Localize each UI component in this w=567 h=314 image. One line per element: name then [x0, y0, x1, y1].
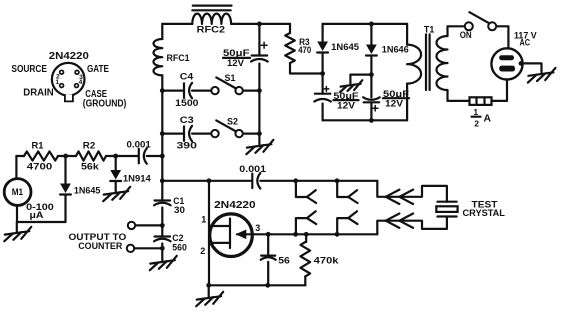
svg-text:C4: C4	[180, 72, 194, 83]
svg-text:ON: ON	[460, 30, 472, 40]
svg-text:50μF: 50μF	[383, 89, 409, 99]
svg-text:(GROUND): (GROUND)	[83, 99, 127, 110]
svg-text:470k: 470k	[314, 255, 340, 265]
svg-text:4700: 4700	[27, 161, 52, 171]
svg-text:1: 1	[55, 79, 59, 86]
svg-text:30: 30	[174, 205, 185, 215]
svg-text:AC: AC	[520, 37, 531, 47]
svg-text:RFC1: RFC1	[167, 53, 190, 63]
svg-text:2: 2	[474, 119, 479, 129]
svg-text:T1: T1	[424, 24, 434, 34]
svg-text:390: 390	[177, 141, 197, 151]
svg-text:2N4220: 2N4220	[214, 200, 256, 211]
svg-text:A: A	[484, 113, 492, 124]
svg-text:COUNTER: COUNTER	[78, 241, 122, 251]
svg-text:RFC2: RFC2	[197, 25, 225, 35]
svg-text:S2: S2	[227, 117, 238, 127]
svg-text:S1: S1	[225, 73, 236, 83]
svg-text:1N646: 1N646	[382, 45, 409, 55]
svg-text:4: 4	[79, 79, 83, 86]
svg-text:1: 1	[201, 215, 206, 225]
svg-text:2: 2	[200, 246, 205, 256]
svg-text:56k: 56k	[81, 161, 100, 171]
svg-text:μA: μA	[30, 210, 44, 221]
svg-text:2N4220: 2N4220	[49, 50, 89, 62]
svg-text:0.001: 0.001	[239, 164, 266, 174]
svg-text:1N914: 1N914	[123, 174, 151, 184]
svg-text:12V: 12V	[227, 58, 245, 68]
svg-text:1: 1	[473, 107, 478, 117]
svg-text:560: 560	[172, 242, 187, 252]
svg-text:DRAIN: DRAIN	[23, 88, 53, 99]
svg-text:50μF: 50μF	[333, 91, 358, 101]
svg-text:470: 470	[298, 45, 311, 55]
svg-text:1N645: 1N645	[331, 42, 359, 52]
svg-text:56: 56	[278, 255, 290, 265]
svg-text:1N645: 1N645	[74, 185, 101, 195]
svg-text:CRYSTAL: CRYSTAL	[463, 208, 506, 218]
svg-text:12V: 12V	[337, 101, 356, 111]
svg-text:0.001: 0.001	[127, 140, 151, 150]
svg-text:C3: C3	[180, 115, 194, 126]
svg-text:12V: 12V	[385, 99, 404, 109]
svg-text:GATE: GATE	[87, 64, 109, 75]
svg-text:3: 3	[255, 223, 260, 233]
svg-text:1500: 1500	[175, 98, 198, 108]
svg-text:R1: R1	[32, 141, 44, 151]
svg-text:R2: R2	[83, 141, 96, 151]
svg-text:SOURCE: SOURCE	[11, 64, 47, 75]
svg-text:M1: M1	[12, 187, 23, 197]
